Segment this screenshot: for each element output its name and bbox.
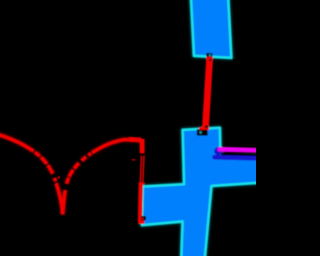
navy via blob at magenta start [214, 147, 222, 155]
red dot in black pad [142, 218, 144, 220]
hollow trace right wall [143, 156, 144, 183]
pad P1 (top-right blue rectangle) [191, 0, 232, 58]
red trace bottom foot [138, 220, 144, 224]
copper zone cross glow underlay [142, 128, 260, 256]
red curve left branch (solid, dashes, solid to cusp tip) [0, 134, 63, 214]
hook vertical red bar [140, 139, 145, 153]
pad hole notch top (black) [206, 53, 212, 57]
small red wisp dash [132, 159, 135, 161]
hook horizontal thick end [129, 137, 142, 142]
red curve right branch + top arc (solid at tip, dashes, solid arc to hook) [63, 140, 143, 215]
hollow/solid trace junction [139, 182, 145, 184]
red trace R1 (vertical, pad to zone) [202, 57, 213, 130]
black pad square at trace end [141, 216, 146, 220]
via hole top (black dot on red) [209, 59, 211, 61]
copper zone cross (blue zone with cyan outline) [142, 128, 260, 256]
pad P1 glow underlay [191, 0, 232, 58]
black gap mask between magenta and navy [221, 154, 259, 155]
hollow trace left wall [140, 156, 141, 183]
lower red trace [138, 184, 143, 221]
magenta trace glow [220, 149, 259, 150]
via hole bottom (black dot on red) [205, 125, 208, 127]
red trace foot at zone [199, 127, 209, 130]
red curve glow underlay [0, 134, 143, 214]
magenta trace [220, 149, 259, 150]
navy trace [215, 157, 260, 158]
cyan dot in top notch [209, 54, 211, 56]
stray red dot near cusp [58, 176, 60, 178]
cyan dot in bottom notch [199, 131, 201, 134]
zone hole notch (black) on trunk top edge [197, 129, 208, 135]
